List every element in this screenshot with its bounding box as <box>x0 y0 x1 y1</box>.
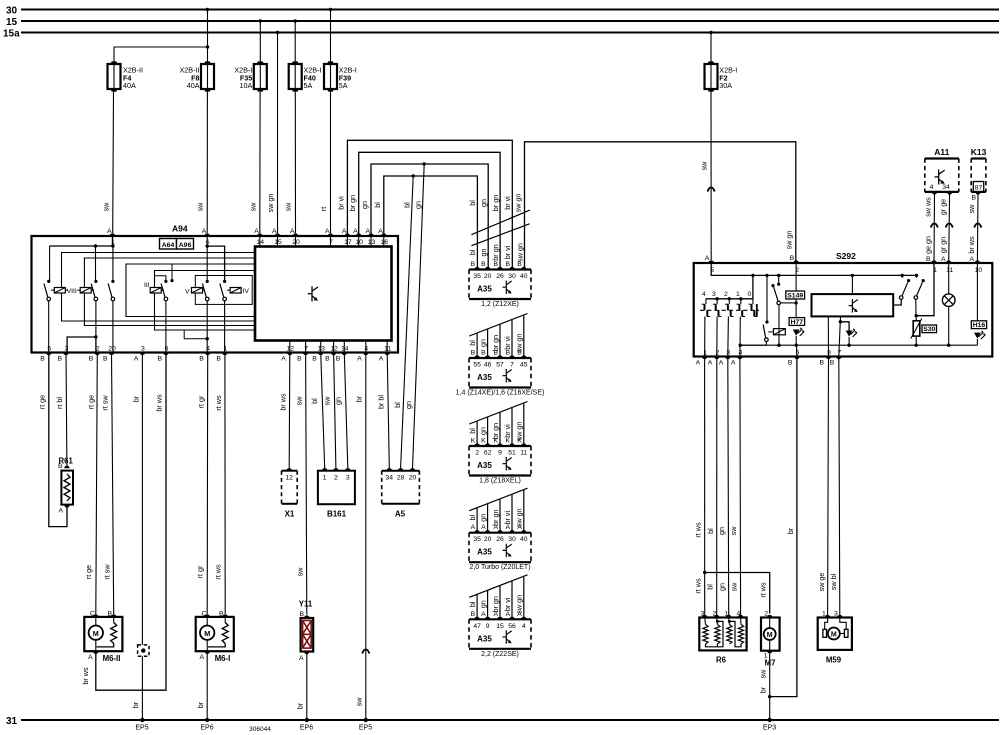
svg-text:br: br <box>759 686 768 693</box>
A35 pin 47 <box>474 617 479 620</box>
svg-text:A35: A35 <box>477 285 492 294</box>
group box V-IV <box>195 276 252 305</box>
svg-text:28: 28 <box>397 475 405 482</box>
relay contact III switch <box>111 280 114 283</box>
A35 pin 30 <box>509 267 514 270</box>
svg-text:A: A <box>353 228 358 235</box>
node 30-F8 <box>206 8 209 11</box>
svg-text:br: br <box>296 702 305 709</box>
svg-text:rt ws: rt ws <box>214 564 223 580</box>
svg-text:sw gn: sw gn <box>515 595 524 614</box>
wire ECU to A94 bottom pin <box>320 341 322 353</box>
connector X1 <box>281 471 283 504</box>
S292 top pin 2 <box>793 260 798 263</box>
svg-text:gn: gn <box>333 397 342 405</box>
svg-text:EP5: EP5 <box>359 725 372 732</box>
svg-text:30: 30 <box>6 6 18 17</box>
wire A94 pin20 rt sw to M6-II B <box>112 353 114 615</box>
svg-text:B: B <box>481 350 486 357</box>
svg-text:A: A <box>719 360 724 367</box>
S292 bottom pin 2 <box>714 357 719 360</box>
svg-text:B: B <box>972 195 977 202</box>
svg-text:15: 15 <box>6 17 18 28</box>
svg-text:A94: A94 <box>172 224 188 234</box>
svg-text:B: B <box>297 356 302 363</box>
node pin4 branch <box>739 344 742 347</box>
svg-text:A: A <box>202 228 207 235</box>
A94 bottom pin 6 <box>163 353 168 356</box>
wire gn stub <box>487 504 489 533</box>
svg-text:bl: bl <box>706 528 715 534</box>
svg-text:R6: R6 <box>716 656 727 665</box>
wire A94 pin16 bl <box>384 176 478 270</box>
svg-text:4: 4 <box>702 291 706 298</box>
wire br gn stub <box>499 585 501 619</box>
rotary switch contacts <box>705 299 707 304</box>
wire sw gn stub <box>523 315 525 358</box>
module S292 box <box>694 263 993 357</box>
svg-text:14: 14 <box>257 239 265 246</box>
svg-text:gn: gn <box>479 249 488 257</box>
wire F4 to A94 pin1 <box>112 92 115 233</box>
wire pin11 to lamp <box>948 263 950 294</box>
svg-text:rt gr: rt gr <box>197 395 206 408</box>
svg-text:sw ws: sw ws <box>924 197 933 217</box>
wire A94 pin to ECU <box>358 236 360 247</box>
wire pin4 to relay contact <box>740 344 766 346</box>
wire F40 to A94 pin20 <box>294 92 296 233</box>
svg-text:A: A <box>281 356 286 363</box>
svg-text:K: K <box>481 438 486 445</box>
wire ECU to A94 bottom pin <box>289 341 291 353</box>
svg-text:9: 9 <box>486 623 490 630</box>
svg-text:sw gn: sw gn <box>266 194 275 213</box>
S292 top pin 5 <box>709 260 714 263</box>
svg-text:bl: bl <box>393 402 402 408</box>
svg-text:B: B <box>40 356 45 363</box>
svg-text:45: 45 <box>520 362 528 369</box>
svg-text:4: 4 <box>364 346 368 353</box>
A94 bottom pin 4 <box>205 353 210 356</box>
svg-text:sw: sw <box>102 202 111 212</box>
svg-text:br: br <box>131 701 140 708</box>
svg-text:gn: gn <box>717 527 726 535</box>
label box A64 <box>160 239 177 250</box>
control unit A94 box <box>32 236 399 353</box>
svg-text:EP5: EP5 <box>135 725 148 732</box>
svg-text:17: 17 <box>344 239 352 246</box>
svg-text:20: 20 <box>292 239 300 246</box>
splice box <box>138 645 149 656</box>
transistor in A11 <box>935 170 945 185</box>
S292 top pin 1 <box>931 260 936 263</box>
svg-text:3: 3 <box>141 346 145 353</box>
wire contact4 to pin4 <box>739 317 741 357</box>
wire pin6 feed <box>206 236 208 281</box>
svg-text:bl: bl <box>468 200 477 206</box>
svg-text:15: 15 <box>496 623 504 630</box>
svg-text:31: 31 <box>6 716 18 727</box>
svg-text:V: V <box>185 289 190 296</box>
svg-text:12: 12 <box>287 346 295 353</box>
wire S292 pin4 sw to R6 <box>739 357 742 616</box>
svg-text:A5: A5 <box>395 510 406 519</box>
svg-text:1: 1 <box>323 475 327 482</box>
A94 bottom pin 3 <box>140 353 145 356</box>
node on bus <box>751 274 754 277</box>
svg-text:sw ge: sw ge <box>817 573 826 592</box>
wire S292 pin5 br down <box>770 357 797 697</box>
wire bl stub <box>476 508 478 533</box>
rotary mechanical link <box>700 309 759 311</box>
wire A94 pin17 br vi <box>347 140 512 269</box>
svg-text:br vi: br vi <box>503 336 512 350</box>
svg-text:br bl: br bl <box>376 395 385 409</box>
wire sw gn stub <box>523 403 525 446</box>
wire A94 pin14 gn to B161 <box>344 353 348 469</box>
wire bl stub <box>476 421 478 446</box>
A94 bottom pin 12 <box>331 353 336 356</box>
svg-text:13: 13 <box>317 346 325 353</box>
wire ECU to pin8 <box>827 316 829 356</box>
svg-text:br: br <box>786 527 795 534</box>
svg-text:IV: IV <box>243 288 250 295</box>
svg-text:35: 35 <box>473 536 481 543</box>
svg-text:A: A <box>342 228 347 235</box>
A35 pin 20 <box>485 530 490 533</box>
svg-text:B: B <box>471 261 476 268</box>
svg-text:A: A <box>941 256 946 263</box>
svg-text:14: 14 <box>341 346 349 353</box>
svg-text:4: 4 <box>930 184 934 191</box>
harness crossing mark <box>469 314 527 337</box>
svg-text:X1: X1 <box>285 510 295 519</box>
svg-text:br gn: br gn <box>491 335 500 351</box>
wire A94 pin3 rt bl to R61 <box>65 353 68 467</box>
node pin1 feed a <box>94 244 97 247</box>
svg-text:B: B <box>199 356 204 363</box>
svg-text:8: 8 <box>827 350 831 357</box>
wire S292 pin2b bl to R6 <box>716 357 718 616</box>
node on bus <box>777 274 780 277</box>
svg-text:br vi: br vi <box>503 196 512 210</box>
svg-text:gn: gn <box>479 199 488 207</box>
svg-text:S149: S149 <box>787 292 803 299</box>
svg-text:A: A <box>325 228 330 235</box>
A35 pin 40 <box>521 530 526 533</box>
ground EP3 node <box>768 718 772 722</box>
wire S292 pin7 sw bl to M59 <box>839 357 840 616</box>
wire pin1 to S30 node <box>916 263 934 316</box>
svg-text:sw: sw <box>284 202 293 212</box>
wire F4 top to F8 column <box>114 47 208 62</box>
bus line 15a <box>21 32 999 34</box>
svg-text:rt gr: rt gr <box>195 565 204 578</box>
harness crossing mark <box>469 575 527 598</box>
wire sw gn stub <box>523 576 525 619</box>
svg-text:A35: A35 <box>477 373 492 382</box>
wire A94 pin3b br to ground EP5 <box>141 353 143 721</box>
svg-text:gr ge: gr ge <box>939 199 948 215</box>
wire K13 pin87 to S292 pin10 <box>976 192 979 263</box>
internal LED <box>846 331 853 337</box>
S292 top pin 10 <box>975 260 980 263</box>
A94 bottom pin 14 <box>342 353 347 356</box>
svg-text:bl: bl <box>468 249 477 255</box>
node 15a-F2 <box>709 31 712 34</box>
wire br gn stub <box>499 412 501 446</box>
svg-text:H77: H77 <box>791 319 804 326</box>
wire M6-II A br ws to A94 pin6 <box>96 353 166 691</box>
fuse F39 <box>324 64 337 89</box>
svg-text:br vi: br vi <box>503 424 512 438</box>
bus line 15 <box>21 20 999 22</box>
wire A94 pin to ECU <box>346 236 348 247</box>
wire A94 pin4b br to EP5 <box>365 353 367 721</box>
A35 pin 40 <box>521 267 526 270</box>
svg-text:sw gn: sw gn <box>515 243 524 262</box>
svg-text:A: A <box>59 508 64 515</box>
svg-text:10: 10 <box>355 239 363 246</box>
connector A5 <box>381 471 383 504</box>
svg-text:A: A <box>708 360 713 367</box>
node EP3 join <box>768 695 771 698</box>
node on bus <box>851 274 854 277</box>
wire gn stub <box>487 417 489 446</box>
S292 bottom pin 4 <box>737 357 742 360</box>
connector A11 box <box>924 159 926 192</box>
svg-text:20: 20 <box>409 475 417 482</box>
A35 pin 56 <box>509 617 514 620</box>
svg-text:B: B <box>788 360 793 367</box>
wire A94 pin to ECU <box>330 236 332 247</box>
A94 bottom pin 11 <box>385 353 390 356</box>
wire A94 pin to ECU <box>383 236 385 247</box>
wire contact3 to pin3 <box>727 317 730 357</box>
svg-text:B: B <box>103 356 108 363</box>
svg-text:K: K <box>471 438 476 445</box>
wire gn stub <box>487 329 489 358</box>
A35 pin 57 <box>497 355 502 358</box>
svg-text:rt ge: rt ge <box>84 565 93 579</box>
wire sw gn stub <box>523 490 525 533</box>
svg-text:sw: sw <box>296 567 305 577</box>
wire 30 to F8 <box>207 10 209 62</box>
wire A94 pin10 br gn <box>359 152 500 269</box>
svg-text:46: 46 <box>484 362 492 369</box>
svg-text:1: 1 <box>736 291 740 298</box>
svg-text:br gn: br gn <box>491 195 500 211</box>
svg-text:gn: gn <box>360 201 369 209</box>
svg-text:bl: bl <box>468 428 477 434</box>
wire br gn stub <box>499 324 501 358</box>
wire S292 pin8 sw ge to M59 <box>827 357 830 616</box>
svg-text:B: B <box>325 356 330 363</box>
wire branch to M7 pin2 <box>705 573 770 614</box>
svg-text:A: A <box>88 654 93 661</box>
wire A94 pin2 rt ge to M6-II C <box>96 353 98 615</box>
svg-text:bl: bl <box>468 515 477 521</box>
svg-text:A: A <box>378 228 383 235</box>
relay contact II <box>94 280 97 283</box>
svg-text:A35: A35 <box>477 634 492 643</box>
rotary end stop bar <box>756 304 758 317</box>
svg-text:B: B <box>471 611 476 618</box>
connector K13 box <box>970 159 972 192</box>
svg-text:30: 30 <box>508 536 516 543</box>
wire A11 pin4 to S292 pin1 <box>933 192 936 263</box>
svg-text:A: A <box>696 360 701 367</box>
svg-text:sw gn: sw gn <box>515 508 524 527</box>
node 15-F40 <box>294 19 297 22</box>
svg-text:gn: gn <box>478 514 487 522</box>
svg-text:306044: 306044 <box>249 726 271 733</box>
svg-text:11: 11 <box>384 346 391 353</box>
svg-text:B: B <box>216 356 221 363</box>
wire A94 pin11 br bl to A5 <box>387 353 389 469</box>
wire A94 pin13 gn <box>371 164 488 270</box>
wire A94 pin12b sw to B161 <box>334 353 336 469</box>
S292 bottom pin 5 <box>794 357 799 360</box>
S292 top pin 11 <box>946 260 951 263</box>
A94 top pin 1 <box>110 233 115 236</box>
wire ECU to A94 bottom pin <box>333 341 335 353</box>
wire F2 to S292 pin5 <box>710 92 712 260</box>
wire sw gn to S292 pin2 <box>525 142 796 270</box>
svg-text:br gn: br gn <box>491 510 500 526</box>
svg-text:M: M <box>767 632 773 639</box>
wire A94 pin13 bl to B161 <box>321 353 325 469</box>
svg-text:30A: 30A <box>719 81 732 90</box>
R6 internal link 1 <box>706 621 724 646</box>
svg-text:5: 5 <box>47 346 51 353</box>
label box A96 <box>177 239 194 250</box>
wire S149 to pin2 wire <box>781 302 797 304</box>
svg-text:gn: gn <box>478 427 487 435</box>
svg-text:M6-I: M6-I <box>215 654 231 663</box>
wire A11 pin34 to S292 pin11 <box>948 192 951 263</box>
bus line 31 <box>21 719 999 721</box>
svg-text:1,2 (Z12XE): 1,2 (Z12XE) <box>481 301 519 308</box>
node switch2-S30 <box>915 314 918 317</box>
svg-text:B: B <box>790 255 795 262</box>
wire A94 pin4 rt gr to M6-I C <box>206 353 209 615</box>
svg-text:16: 16 <box>381 239 389 246</box>
A94 top pin 10 <box>356 233 361 236</box>
svg-text:sw gn: sw gn <box>514 194 523 213</box>
svg-text:12: 12 <box>285 475 293 482</box>
LED H77 <box>793 330 800 336</box>
node 15a branch <box>276 31 279 34</box>
connector A35 box <box>468 619 470 649</box>
resistor S30 <box>913 321 920 336</box>
svg-text:br: br <box>196 701 205 708</box>
S292 bottom pin 3 <box>725 357 730 360</box>
svg-text:A: A <box>272 228 277 235</box>
A35 pin 55 <box>474 355 479 358</box>
A35 pin 2 <box>474 443 479 446</box>
svg-text:sw: sw <box>248 202 257 212</box>
svg-text:rt ws: rt ws <box>694 578 703 594</box>
wire S292 pin3 gn to R6 <box>727 357 730 616</box>
node pin1 feed b <box>111 244 114 247</box>
svg-text:20: 20 <box>484 273 492 280</box>
svg-text:2: 2 <box>475 450 479 457</box>
svg-text:2: 2 <box>715 350 719 357</box>
svg-text:gn: gn <box>718 583 727 591</box>
svg-text:sw: sw <box>730 582 739 592</box>
A35 pin 9 <box>497 443 502 446</box>
A94 top pin 7 <box>328 233 333 236</box>
wire lamp to rail <box>948 307 950 346</box>
svg-text:3: 3 <box>346 475 350 482</box>
A35 pin 20 <box>485 267 490 270</box>
LED H16 <box>974 333 981 339</box>
wire loop L1 <box>62 253 256 322</box>
fuse F8 <box>201 64 214 89</box>
A35 pin 11 <box>521 443 526 446</box>
svg-text:40: 40 <box>520 273 528 280</box>
wire A94 pin1b rt ws to M6-I B <box>224 353 226 615</box>
wire A94 pin to ECU <box>277 236 279 247</box>
svg-text:gn: gn <box>404 401 413 409</box>
svg-text:sw gn: sw gn <box>785 231 794 250</box>
wire ECU to A94 bottom pin <box>343 341 345 353</box>
svg-text:6: 6 <box>165 346 169 353</box>
svg-text:sw: sw <box>759 669 768 679</box>
svg-text:55: 55 <box>473 362 481 369</box>
svg-text:0: 0 <box>748 291 752 298</box>
svg-text:A: A <box>970 256 975 263</box>
wire F35 to A94 pin14 <box>259 92 261 233</box>
A94 top pin 15 <box>275 233 280 236</box>
svg-text:B161: B161 <box>327 510 347 519</box>
wire bl stub <box>476 333 478 358</box>
relay contact in S292 <box>765 338 769 342</box>
svg-text:VIII: VIII <box>67 288 77 295</box>
A35 pin 46 <box>485 355 490 358</box>
svg-text:51: 51 <box>508 450 516 457</box>
label box H77 <box>789 318 805 326</box>
switch 1 right <box>893 300 901 306</box>
svg-text:2: 2 <box>724 291 728 298</box>
svg-text:br: br <box>355 395 364 402</box>
wire A94 pin12 br ws to X1 <box>288 353 291 469</box>
svg-text:A: A <box>379 356 384 363</box>
relay coil in S292 <box>768 331 773 333</box>
svg-text:sw gn: sw gn <box>515 422 524 441</box>
svg-text:9: 9 <box>498 450 502 457</box>
rotary switch rail <box>706 275 753 298</box>
wire ECU to pin7 <box>839 316 841 356</box>
node LED branch <box>839 320 842 323</box>
A94 bottom pin 20 <box>109 353 114 356</box>
svg-text:40A: 40A <box>123 81 136 90</box>
svg-text:bl: bl <box>310 398 319 404</box>
A94 bottom pin 3 <box>63 353 68 356</box>
svg-text:12: 12 <box>330 346 338 353</box>
wire bl stub <box>476 594 478 619</box>
ground EP6b node <box>305 718 309 722</box>
wire S149 down to rail <box>778 305 780 346</box>
label box H16 <box>971 321 986 329</box>
svg-text:B: B <box>336 356 341 363</box>
node rt ws branch to M7 <box>703 571 706 574</box>
wire 15a to F2 <box>710 33 712 62</box>
svg-text:47: 47 <box>473 623 481 630</box>
A94 bottom pin 13 <box>318 353 323 356</box>
svg-text:rt ge: rt ge <box>86 395 95 409</box>
